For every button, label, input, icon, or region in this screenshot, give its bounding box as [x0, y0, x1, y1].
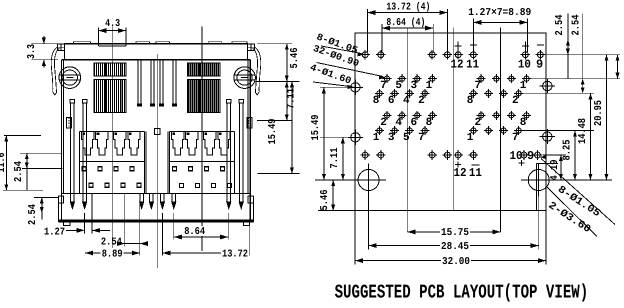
signal hole row y130.6 [375, 126, 384, 135]
svg-text:7: 7 [512, 132, 519, 144]
left corner block [58, 44, 65, 50]
svg-text:1: 1 [373, 132, 380, 144]
signal hole row y78.7 [383, 74, 392, 83]
right corner block [248, 44, 255, 50]
svg-text:13.72 (4): 13.72 (4) [386, 2, 430, 14]
right screw boss [234, 67, 256, 89]
svg-text:11: 11 [466, 57, 479, 71]
dimension 8.89 bottom [85, 252, 140, 254]
dimension 2.54 left upper [20, 152, 63, 154]
leader 2-dia3.60 bottom-right [547, 187, 598, 237]
hole row extension columns top [366, 9, 368, 52]
svg-text:1.27×7=8.89: 1.27×7=8.89 [468, 7, 531, 19]
left jack contact squares row2 [89, 183, 93, 187]
signal hole row y115.3 [383, 111, 392, 120]
svg-text:1: 1 [520, 80, 527, 92]
top bar of shield shell [65, 44, 248, 60]
dimension 32.00 [355, 260, 546, 262]
svg-text:2.54: 2.54 [570, 15, 582, 36]
jack cavity walls [145, 132, 147, 194]
svg-text:12: 12 [454, 166, 467, 180]
svg-text:32.00: 32.00 [442, 256, 470, 268]
svg-text:3: 3 [388, 132, 395, 144]
shell bottom plate [61, 193, 250, 195]
dimension 15.75 [407, 231, 500, 233]
svg-text:SUGGESTED PCB LAYOUT(TOP VIEW): SUGGESTED PCB LAYOUT(TOP VIEW) [335, 282, 589, 304]
centerline right port [201, 27, 203, 252]
svg-text:5: 5 [395, 80, 402, 92]
dimension 7.11 left [342, 137, 344, 180]
middle jack legs [139, 194, 141, 204]
extension columns below front view [91, 194, 93, 234]
PCB column construction lines [406, 28, 408, 233]
left jack contact squares row1 [82, 167, 86, 171]
svg-text:9: 9 [527, 149, 534, 163]
svg-text:2: 2 [474, 117, 481, 129]
PCB outline [355, 33, 546, 211]
svg-text:5.46: 5.46 [289, 48, 301, 69]
row extension lines right side [540, 54, 620, 56]
svg-text:7: 7 [474, 80, 481, 92]
svg-text:13.72: 13.72 [222, 248, 248, 260]
bottom hole row [360, 150, 370, 160]
right jack contact squares row2 [180, 183, 184, 187]
svg-text:15.49: 15.49 [267, 119, 279, 145]
svg-text:8.25: 8.25 [562, 140, 574, 161]
svg-text:7.11: 7.11 [329, 148, 341, 169]
svg-text:7: 7 [418, 132, 425, 144]
svg-text:8.89: 8.89 [102, 248, 123, 260]
svg-text:4.19: 4.19 [549, 160, 561, 181]
dimension 13.72 bottom [162, 252, 249, 254]
dimension 2.54 left lower [34, 197, 58, 199]
leader 8-dia1.05 bottom-right [541, 159, 615, 225]
dimension 3.3 left top [32, 43, 62, 45]
svg-text:8: 8 [373, 95, 380, 107]
right EMI ground tab [253, 47, 261, 96]
svg-text:8: 8 [520, 117, 527, 129]
EMI finger hatch upper-right [188, 63, 220, 76]
svg-text:8.64 (4): 8.64 (4) [386, 17, 425, 29]
svg-text:2.54: 2.54 [554, 15, 566, 36]
svg-text:15.49: 15.49 [310, 115, 322, 141]
svg-text:10: 10 [518, 57, 531, 71]
EMI finger hatch lower-right [188, 79, 220, 112]
svg-text:4: 4 [403, 95, 410, 107]
dimension 4.3 top [97, 27, 99, 43]
svg-text:1: 1 [426, 80, 433, 92]
svg-text:28.45: 28.45 [441, 241, 469, 253]
dimension 20.95 right [606, 55, 608, 180]
short dimension line far right [617, 55, 619, 79]
dimension 2.54 top-right first [567, 14, 569, 79]
dimension 8.64 bottom [174, 236, 228, 238]
corner slot lines right [536, 164, 538, 211]
svg-text:15.75: 15.75 [441, 227, 469, 239]
svg-text:20.95: 20.95 [593, 100, 605, 126]
left screw boss [59, 67, 81, 89]
left EMI ground tab [51, 47, 59, 96]
svg-text:2: 2 [512, 95, 519, 107]
svg-text:9: 9 [536, 57, 543, 71]
middle contact pins [137, 60, 139, 104]
svg-text:14.48: 14.48 [577, 118, 589, 144]
dimension 15.49 left [323, 87, 325, 180]
dimension 4.19 right [560, 155, 562, 180]
mounting hole 3.60mm right [528, 170, 549, 191]
left row extension lines [320, 86, 351, 88]
svg-text:5.46: 5.46 [319, 190, 331, 211]
dimension 2.54 top-right second [582, 14, 584, 94]
dimension 14.48 right [590, 93, 592, 180]
svg-text:11: 11 [469, 166, 482, 180]
bottom corner feet [64, 222, 70, 225]
PCB bottom extension columns [354, 211, 356, 265]
svg-text:2: 2 [380, 117, 387, 129]
svg-text:6: 6 [388, 95, 395, 107]
centerline left port [111, 27, 113, 252]
dimension 15.49 right [255, 80, 299, 82]
dimension 5.46 left [332, 180, 334, 211]
top edge tabs [74, 42, 91, 44]
svg-text:2.54: 2.54 [13, 161, 25, 182]
mounting holes 1.60mm [348, 80, 363, 95]
svg-text:10: 10 [510, 149, 523, 163]
svg-text:7: 7 [380, 80, 387, 92]
svg-text:2.54: 2.54 [27, 204, 39, 225]
right wall spring contact [247, 118, 252, 129]
top hole row [360, 50, 370, 60]
svg-text:1: 1 [467, 132, 474, 144]
right jack opening [170, 131, 235, 133]
svg-text:6: 6 [410, 117, 417, 129]
svg-text:4.3: 4.3 [105, 18, 120, 30]
dimension 7.11 right [286, 81, 288, 120]
left shield legs [70, 100, 74, 104]
center divider tab [155, 129, 160, 135]
dimension 8.64 (4) top [382, 27, 433, 29]
left jack opening [80, 131, 145, 133]
right shield legs [227, 100, 231, 104]
svg-text:5: 5 [403, 132, 410, 144]
dimension 13.72 (4) top [367, 12, 447, 14]
shell left wall [60, 60, 62, 222]
svg-text:12: 12 [451, 57, 464, 71]
svg-text:4: 4 [395, 117, 402, 129]
svg-text:11.6: 11.6 [0, 153, 8, 173]
EMI finger hatch upper-left [94, 63, 126, 76]
signal hole row y93.3 [375, 89, 384, 98]
svg-text:8.64: 8.64 [184, 226, 205, 238]
EMI finger hatch lower-left [94, 79, 126, 112]
left wall spring contact [67, 118, 72, 129]
dimension 28.45 [369, 245, 539, 247]
right jack contact squares row1 [173, 167, 177, 171]
centerline middle [156, 54, 158, 268]
top notch 4.3 window [98, 45, 126, 47]
svg-text:8: 8 [467, 95, 474, 107]
svg-text:8: 8 [426, 117, 433, 129]
mounting hole 3.60mm left [358, 170, 379, 191]
svg-text:3.3: 3.3 [26, 44, 38, 59]
dimension 8.25 right [574, 131, 576, 180]
svg-text:1.27: 1.27 [44, 227, 65, 239]
shell right wall [249, 60, 251, 222]
svg-text:2: 2 [418, 95, 425, 107]
dimension 5.46 right [257, 43, 292, 45]
polarity marks top [457, 42, 459, 52]
svg-text:3: 3 [410, 80, 417, 92]
dimension 1.27x7 top [473, 21, 527, 23]
dimension 11.6 left [4, 135, 41, 137]
